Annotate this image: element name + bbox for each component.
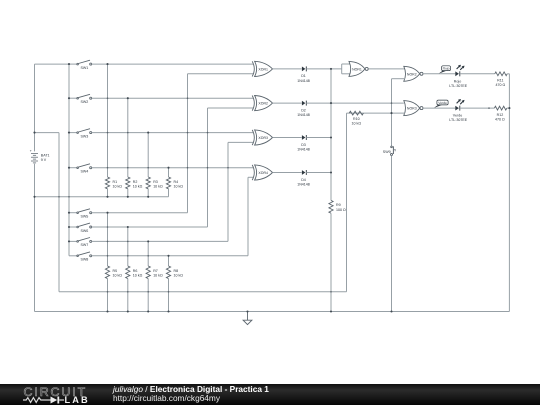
wire NOR3 output to LED Verde	[423, 107, 455, 109]
switch SW9	[391, 146, 396, 155]
wire SW9 net vertical upper	[391, 79, 393, 146]
svg-text:R1: R1	[113, 180, 118, 184]
wire R3 column top	[147, 133, 149, 177]
wire R6 column bottom	[127, 279, 129, 312]
svg-text:R7: R7	[153, 269, 158, 273]
junction R10 row at SW9 net	[390, 112, 392, 114]
wire right rail vertical	[508, 74, 510, 312]
junction crossing 12	[207, 132, 209, 134]
wire SW5 row	[92, 212, 188, 214]
diode LED1 Rojo	[455, 65, 464, 77]
wire ground rail bottom	[35, 311, 510, 313]
wire XOR2 output to D2	[273, 102, 302, 104]
junction R4 top	[167, 167, 169, 169]
svg-text:NOR3: NOR3	[407, 107, 417, 111]
junction crossing 26	[391, 102, 393, 104]
junction R3 top	[147, 132, 149, 134]
svg-text:10 kΩ: 10 kΩ	[174, 273, 184, 277]
junction crossing 18	[127, 241, 129, 243]
wire SW6 row	[92, 226, 208, 228]
diode D2	[302, 101, 306, 106]
svg-text:R12: R12	[497, 113, 504, 117]
wire SW1 row to XOR1	[92, 63, 253, 65]
junction right rail R12	[508, 107, 510, 109]
junction crossing 6	[127, 132, 129, 134]
wire LED Verde to R12	[460, 107, 494, 109]
svg-text:10 kΩ: 10 kΩ	[113, 184, 123, 188]
switch SW6	[69, 223, 92, 228]
node flag Verde	[434, 100, 448, 108]
wire R8 column top	[168, 256, 170, 266]
junction crossing 24	[168, 291, 170, 293]
junction rail R9	[330, 310, 332, 312]
junction crossing 8	[147, 167, 149, 169]
junction ground line left	[33, 196, 35, 198]
junction crossing 5	[107, 167, 109, 169]
wire SW8 row	[92, 255, 248, 257]
svg-text:D2: D2	[301, 108, 306, 112]
wire R4 column top	[168, 168, 170, 177]
wire left rail below battery	[34, 164, 36, 312]
wire LED Rojo to R11	[460, 73, 495, 75]
junction bus top	[68, 63, 70, 65]
junction crossing 11	[187, 167, 189, 169]
svg-text:Rojo: Rojo	[443, 67, 450, 71]
junction bus SW5	[68, 212, 70, 214]
junction rail ground symbol	[246, 310, 248, 312]
svg-text:R10: R10	[353, 117, 360, 121]
svg-text:SW6: SW6	[81, 229, 89, 233]
wire R10 row to NOR3 second input	[347, 112, 406, 114]
svg-text:R11: R11	[497, 79, 503, 83]
junction crossing 14	[227, 167, 229, 169]
svg-text:10 kΩ: 10 kΩ	[113, 273, 123, 277]
wire SW4 row to XOR4	[92, 167, 253, 169]
junction R1 top	[106, 63, 108, 65]
svg-text:10 kΩ: 10 kΩ	[133, 273, 143, 277]
svg-text:Verde: Verde	[453, 114, 462, 118]
resistor R12	[494, 106, 506, 110]
wire R2 column top	[127, 98, 129, 177]
wire SW9 to ground rail	[391, 156, 393, 312]
junction crossing 9	[187, 97, 189, 99]
svg-text:D4: D4	[301, 178, 306, 182]
switch SW1	[69, 60, 92, 65]
svg-text:LTL-307EE: LTL-307EE	[449, 84, 468, 88]
svg-text:SW9: SW9	[383, 150, 391, 154]
wire R8 column bottom	[168, 279, 170, 312]
wire battery plus tap horizontal	[35, 132, 60, 134]
svg-text:XOR4: XOR4	[258, 171, 268, 175]
svg-text:R2: R2	[133, 180, 138, 184]
svg-text:10 kΩ: 10 kΩ	[174, 184, 184, 188]
resistor R1	[105, 177, 109, 189]
node flag Rojo	[438, 66, 450, 74]
wire riser to XOR3 B input	[227, 142, 229, 241]
svg-text:NOR2: NOR2	[407, 72, 417, 76]
junction rail R6	[127, 310, 129, 312]
svg-text:R9: R9	[336, 203, 341, 207]
junction crossing 1	[58, 196, 60, 198]
wire ground line upper	[35, 196, 169, 198]
junction bus SW2	[68, 97, 70, 99]
wire SW7 row	[92, 240, 228, 242]
node NOR1 input bracket	[341, 64, 343, 74]
svg-text:D1: D1	[301, 74, 306, 78]
wire riser to XOR4 B input	[247, 177, 249, 256]
junction diode bus D2	[330, 102, 332, 104]
wire R11 to right rail	[507, 73, 509, 75]
switch SW4	[69, 164, 92, 169]
junction crossing 23	[147, 291, 149, 293]
wire XOR3 output to D3	[273, 137, 302, 139]
resistor R8	[166, 266, 170, 279]
wire NOR2 output to LED Rojo	[423, 73, 455, 75]
svg-text:9 V: 9 V	[41, 158, 47, 162]
wire diode bus vertical	[330, 69, 332, 201]
junction crossing 17	[107, 255, 109, 257]
wire R10 feed vertical	[346, 113, 348, 292]
junction R6 top	[127, 226, 129, 228]
wire plus branch vertical	[58, 133, 60, 292]
svg-text:LTL-307EE: LTL-307EE	[449, 118, 468, 122]
junction crossing 7	[127, 167, 129, 169]
op-amp NOR1 gate	[349, 61, 368, 76]
op-amp XOR1 gate	[252, 61, 272, 76]
junction R2 bottom	[127, 196, 129, 198]
svg-text:XOR3: XOR3	[258, 136, 268, 140]
op-amp XOR2 gate	[252, 96, 272, 111]
svg-text:1N4148: 1N4148	[297, 147, 310, 151]
op-amp XOR3 gate	[252, 130, 272, 145]
svg-text:BAT1: BAT1	[41, 153, 50, 157]
junction crossing 19	[127, 255, 129, 257]
wire R1 column top	[107, 64, 109, 177]
resistor R10	[349, 111, 363, 115]
svg-text:10 kΩ: 10 kΩ	[153, 273, 163, 277]
wire D3 output row	[306, 137, 331, 139]
svg-text:1N4148: 1N4148	[297, 182, 310, 186]
svg-text:10 kΩ: 10 kΩ	[153, 184, 163, 188]
svg-text:SW2: SW2	[81, 100, 89, 104]
svg-text:+: +	[30, 149, 32, 153]
wire NOR1 output to NOR2	[369, 68, 405, 70]
resistor R2	[126, 177, 130, 189]
resistor R5	[105, 266, 109, 279]
junction rail SW9	[390, 310, 392, 312]
svg-text:Verde: Verde	[438, 101, 447, 105]
wire top rail to switch bus	[35, 63, 70, 65]
wire R5 column top	[107, 213, 109, 266]
resistor R7	[146, 266, 150, 279]
resistor R11	[495, 72, 507, 76]
junction bus SW4	[68, 167, 70, 169]
diode D1	[302, 66, 306, 71]
switch SW5	[69, 209, 92, 214]
junction R1 bottom	[106, 196, 108, 198]
junction crossing 16	[107, 241, 109, 243]
junction rail R8	[167, 310, 169, 312]
svg-text:SW3: SW3	[81, 134, 89, 138]
diode D4	[302, 170, 306, 175]
wire XOR1 B input row	[188, 73, 254, 75]
wire riser to XOR1 B input	[187, 74, 189, 213]
wire NOR1 input stub top	[342, 63, 351, 65]
wire 9V distribution line	[59, 291, 347, 293]
svg-text:1N4148: 1N4148	[297, 79, 310, 83]
wire R6 column top	[127, 227, 129, 266]
resistor R3	[146, 177, 150, 189]
op-amp NOR2 gate	[404, 66, 423, 81]
ground	[243, 312, 252, 325]
switch SW8	[69, 252, 92, 257]
svg-text:SW7: SW7	[81, 243, 89, 247]
junction crossing 21	[107, 291, 109, 293]
svg-text:10 kΩ: 10 kΩ	[352, 122, 362, 126]
junction rail R5	[106, 310, 108, 312]
wire R4 column bottom	[168, 189, 170, 197]
junction crossing 15	[107, 226, 109, 228]
junction bus SW7	[68, 240, 70, 242]
op-amp XOR4 gate	[252, 165, 272, 180]
junction R2 top	[127, 97, 129, 99]
svg-text:SW4: SW4	[81, 170, 89, 174]
junction crossing 13	[207, 167, 209, 169]
svg-text:SW8: SW8	[81, 258, 89, 262]
wire NOR1 input stub bottom	[342, 73, 351, 75]
junction bus SW6	[68, 226, 70, 228]
junction rail R7	[147, 310, 149, 312]
junction crossing 25	[330, 291, 332, 293]
junction bus SW3	[68, 132, 70, 134]
svg-text:1N4148: 1N4148	[297, 113, 310, 117]
svg-text:R3: R3	[153, 180, 158, 184]
junction diode bus D3	[330, 136, 332, 138]
svg-text:SW5: SW5	[81, 215, 89, 219]
wire R7 column top	[147, 241, 149, 266]
wire R9 bottom to ground rail	[330, 213, 332, 311]
wire SW3 row to XOR3	[92, 132, 253, 134]
wire XOR4 B input row	[248, 176, 253, 178]
wire switch bus vertical	[68, 64, 70, 256]
wire D1 output row	[306, 68, 342, 70]
junction R7 top	[147, 240, 149, 242]
junction R3 bottom	[147, 196, 149, 198]
wire XOR1 output to D1	[273, 68, 302, 70]
svg-text:100 Ω: 100 Ω	[336, 208, 346, 212]
wire R12 to right rail	[507, 107, 510, 109]
wire R1 column bottom	[107, 189, 109, 197]
switch SW3	[69, 129, 92, 134]
wire left rail top segment	[34, 64, 36, 151]
svg-text:470 Ω: 470 Ω	[495, 118, 505, 122]
resistor R4	[166, 177, 170, 189]
svg-text:XOR2: XOR2	[258, 102, 268, 106]
svg-text:NOR1: NOR1	[352, 67, 362, 71]
op-amp NOR3 gate	[404, 101, 423, 116]
wire R7 column bottom	[147, 279, 149, 312]
wire R2 column bottom	[127, 189, 129, 197]
svg-text:Rojo: Rojo	[454, 79, 461, 83]
junction diode bus D1	[330, 68, 332, 70]
wire D2 output row	[306, 102, 404, 104]
junction diode bus D4	[330, 171, 332, 173]
svg-text:D3: D3	[301, 143, 306, 147]
wire SW2 row to XOR2	[92, 97, 253, 99]
junction crossing 3	[107, 97, 109, 99]
junction crossing 22	[127, 291, 129, 293]
resistor R6	[126, 266, 130, 279]
junction crossing 2	[68, 196, 70, 198]
svg-text:470 Ω: 470 Ω	[495, 83, 505, 87]
svg-text:R4: R4	[174, 180, 179, 184]
battery BAT1	[30, 149, 38, 163]
wire XOR4 output to D4	[273, 172, 302, 174]
svg-text:R5: R5	[113, 269, 118, 273]
svg-text:XOR1: XOR1	[258, 67, 268, 71]
wire D4 output row	[306, 172, 331, 174]
wire R3 column bottom	[147, 189, 149, 197]
junction crossing 10	[187, 132, 189, 134]
svg-text:10 kΩ: 10 kΩ	[133, 184, 143, 188]
switch SW7	[69, 238, 92, 243]
wire XOR2 B input row	[208, 107, 254, 109]
junction crossing 20	[147, 255, 149, 257]
diode D3	[302, 135, 306, 140]
junction crossing 4	[107, 132, 109, 134]
resistor R9	[329, 200, 333, 213]
junction R8 top	[167, 255, 169, 257]
diode LED2 Verde	[455, 99, 464, 111]
wire XOR3 B input row	[228, 141, 253, 143]
CircuitLab logo	[24, 385, 88, 399]
svg-text:R6: R6	[133, 269, 138, 273]
junction crossing 27	[488, 107, 490, 109]
wire NOR2 second input stub	[392, 78, 406, 80]
svg-text:R8: R8	[174, 269, 179, 273]
wire R5 column bottom	[107, 279, 109, 312]
svg-text:SW1: SW1	[81, 66, 89, 70]
junction battery plus tap	[33, 132, 35, 134]
junction R5 top	[106, 212, 108, 214]
wire riser to XOR2 B input	[207, 108, 209, 227]
switch SW2	[69, 94, 92, 99]
